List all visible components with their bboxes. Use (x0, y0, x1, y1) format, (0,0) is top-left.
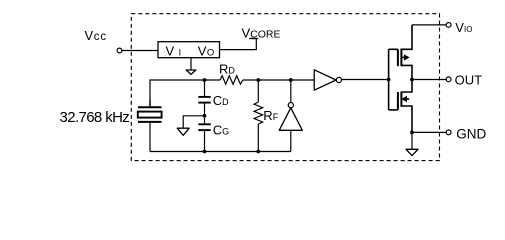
node CD-CG mid (203, 114, 207, 118)
node gate tee (387, 78, 391, 82)
wire to ground symbol (411, 132, 413, 149)
wire Vcc to regulator (122, 50, 158, 52)
transistor Q2 NMOS (389, 80, 412, 133)
node RF bottom (256, 150, 260, 154)
svg-text:Vcc: Vcc (85, 28, 107, 43)
node CD top (203, 78, 207, 82)
svg-text:GND: GND (456, 126, 486, 141)
wire OUT (412, 79, 446, 81)
node drain OUT (410, 78, 414, 82)
node VIO terminal (446, 23, 451, 28)
ground arrow mid (177, 128, 189, 135)
node Vcc terminal (117, 48, 122, 53)
inverter U3 (output buffer) (314, 70, 341, 90)
node GND terminal (446, 130, 451, 135)
wire GND (412, 131, 446, 133)
capacitor CG (198, 116, 210, 152)
node RF top (256, 78, 260, 82)
wire top rail (crystal to RD) (150, 80, 220, 106)
wire regulator ground stub (190, 58, 192, 70)
regulator U1 box (158, 42, 220, 58)
svg-text:OUT: OUT (455, 72, 483, 87)
resistor RF (254, 80, 263, 152)
svg-text:32.768 kHz: 32.768 kHz (60, 109, 130, 126)
arrow Q1 substrate (402, 56, 406, 58)
inverter U2 (feedback, pointing up) (279, 80, 302, 152)
node GND tee (410, 131, 414, 135)
node CG bottom (203, 150, 207, 154)
ground arrow under regulator (186, 70, 196, 74)
node OUT terminal (446, 77, 451, 82)
arrow Q2 substrate (405, 98, 409, 100)
svg-text:VCORE: VCORE (242, 25, 281, 40)
node VCORE tick (249, 38, 258, 40)
wire RD to buffer input (243, 79, 314, 81)
capacitor CD (198, 80, 210, 116)
resistor RD (220, 76, 243, 85)
dashed IC boundary box (131, 14, 439, 161)
wire VO to VCORE (220, 39, 257, 50)
crystal X1 32.768 kHz (138, 100, 162, 152)
transistor Q1 PMOS (389, 25, 412, 80)
wire VIO (412, 24, 446, 26)
node U2 output (289, 78, 293, 82)
wire CD-CG mid node to ground branch (183, 116, 204, 128)
ground arrow output stage (406, 149, 418, 155)
wire bottom rail (150, 151, 291, 153)
wire buffer output to gates (342, 79, 389, 81)
wire gate vertical (388, 49, 390, 110)
